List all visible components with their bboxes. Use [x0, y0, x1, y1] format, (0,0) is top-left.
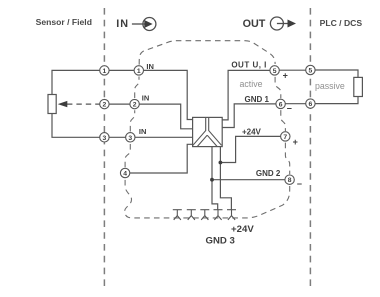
potentiometer R1 body	[48, 95, 56, 114]
device terminal 5	[270, 66, 279, 75]
wire IN 1 to isolator	[139, 70, 193, 119]
isolator U1 box	[193, 117, 223, 146]
wire OUT U,I from isolator to terminal 5	[222, 70, 274, 120]
svg-text:7: 7	[283, 134, 287, 141]
junction dot +24V	[219, 161, 223, 165]
svg-text:+: +	[293, 137, 298, 147]
passive load resistor	[354, 77, 363, 96]
field terminal 1	[100, 66, 109, 75]
ground G1	[173, 210, 182, 220]
device terminal 7	[281, 132, 290, 141]
device terminal 6	[276, 99, 285, 108]
svg-text:1: 1	[137, 68, 141, 75]
svg-text:GND 2: GND 2	[256, 169, 281, 178]
ground G3	[200, 210, 209, 220]
left separator (Sensor/Field boundary)	[103, 8, 105, 291]
svg-text:5: 5	[273, 68, 277, 75]
junction dot GND 2	[210, 178, 214, 182]
device terminal 1	[134, 66, 143, 75]
ground G2	[187, 210, 196, 220]
potentiometer wire bottom (R1 to terminal 3)	[52, 114, 100, 138]
svg-text:+24V: +24V	[242, 127, 262, 136]
wire terminal 6 to PLC terminal 6	[281, 103, 311, 105]
device terminal 2	[130, 99, 139, 108]
wire IN 2 to isolator	[135, 104, 193, 129]
passive load loop wiring	[310, 70, 358, 104]
svg-text:PLC / DCS: PLC / DCS	[320, 18, 363, 28]
device terminal 3	[126, 133, 135, 142]
device terminal 4	[120, 168, 129, 177]
svg-text:1: 1	[103, 68, 107, 75]
wire GND 1 from isolator to terminal 6	[222, 104, 280, 128]
wire terminal 4 to isolator	[125, 144, 193, 173]
wire isolator bottom-right to ground 5	[220, 147, 231, 210]
right separator (PLC/DCS boundary)	[309, 8, 311, 291]
wire GND 2 terminal 8 branch	[212, 179, 285, 181]
wire field terminal 3 to device terminal 3	[104, 136, 130, 138]
potentiometer wire top (R1 to terminal 1)	[52, 70, 100, 94]
svg-text:−: −	[287, 103, 292, 113]
svg-text:IN: IN	[139, 127, 147, 136]
svg-text:GND 3: GND 3	[206, 235, 235, 246]
ground G5 +24V	[227, 210, 236, 220]
svg-text:+: +	[283, 71, 288, 81]
device dashed outline	[125, 41, 290, 218]
svg-text:3: 3	[128, 135, 132, 142]
wire IN 3 to isolator	[130, 136, 192, 138]
wire terminal 5 to PLC terminal 5	[275, 69, 311, 71]
isolator U1 symbol	[193, 118, 222, 147]
wire field terminal 2 to device terminal 2	[104, 103, 134, 105]
svg-text:8: 8	[288, 177, 292, 184]
svg-text:5: 5	[309, 68, 313, 75]
svg-text:2: 2	[103, 102, 107, 109]
svg-text:+24V: +24V	[231, 224, 254, 235]
wiper dashed wire from terminal 2	[67, 103, 100, 105]
svg-text:4: 4	[123, 171, 127, 178]
svg-text:6: 6	[279, 101, 283, 108]
field terminal 2	[100, 99, 109, 108]
svg-text:IN: IN	[116, 18, 129, 30]
svg-text:IN: IN	[146, 62, 154, 71]
OUT direction icon	[270, 17, 296, 30]
wiper arrow	[58, 101, 68, 107]
IN direction icon	[132, 18, 156, 31]
svg-text:−: −	[297, 179, 302, 189]
wire field terminal 1 to device terminal 1	[104, 69, 138, 71]
svg-text:Sensor / Field: Sensor / Field	[36, 17, 92, 27]
svg-text:passive: passive	[315, 81, 345, 91]
ground G4 GND3	[214, 210, 223, 220]
svg-text:active: active	[240, 79, 263, 89]
field terminal 3	[100, 133, 109, 142]
svg-text:6: 6	[309, 101, 313, 108]
svg-text:GND 1: GND 1	[245, 95, 270, 104]
svg-text:2: 2	[133, 102, 137, 109]
svg-text:OUT: OUT	[243, 18, 266, 30]
PLC terminal 6	[306, 99, 315, 108]
svg-text:OUT U, I: OUT U, I	[231, 61, 267, 70]
svg-text:3: 3	[103, 135, 107, 142]
device terminal 8	[285, 175, 294, 184]
PLC terminal 5	[306, 65, 315, 74]
wire +24V terminal 7 branch	[220, 136, 280, 162]
wire isolator bottom to ground 4	[212, 147, 218, 210]
svg-text:IN: IN	[142, 93, 150, 102]
